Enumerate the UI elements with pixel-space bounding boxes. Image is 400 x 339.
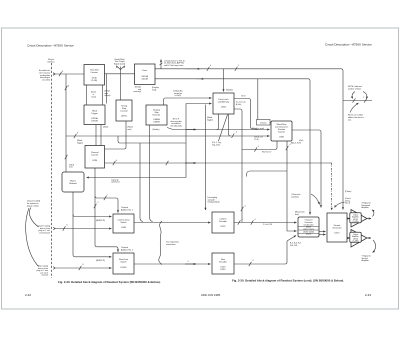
svg-text:(8080/T.P.): (8080/T.P.): [96, 220, 105, 222]
box: Matrix Network: [62, 172, 84, 192]
svg-text:Counter: Counter: [278, 131, 286, 134]
wire: timing strip lockout to channel counter: [105, 121, 127, 149]
svg-text:umn/channel: umn/channel: [39, 232, 50, 234]
svg-text:Counter: Counter: [91, 154, 99, 157]
wire: word logic bottom right branch: [287, 141, 297, 231]
svg-text:and D Port Loops clear: and D Port Loops clear: [164, 64, 184, 67]
box: Column Data Switch U146: [113, 214, 134, 233]
wire: decoupling drop to column decoder: [205, 105, 207, 211]
svg-text:plug-in unit(s): plug-in unit(s): [27, 204, 39, 207]
box: naster gate: [257, 120, 271, 126]
svg-text:(Phota): (Phota): [345, 190, 352, 193]
svg-text:2: 2: [107, 194, 108, 196]
wire: format generator top feed dash-dot: [331, 163, 333, 210]
svg-text:U370B: U370B: [91, 121, 98, 123]
svg-text:(Start): (Start): [103, 126, 109, 129]
wire: network bottom to switches: [73, 192, 112, 257]
wire: word logic bottom left branch: [242, 141, 277, 150]
wire: vertical drop from input feed to matrix network: [65, 74, 67, 172]
svg-text:4: 4: [210, 65, 211, 67]
svg-text:4: 4: [236, 132, 237, 134]
svg-text:the indicated): the indicated): [170, 124, 182, 127]
svg-text:mod): mod): [152, 89, 157, 91]
svg-text:Amplifier: Amplifier: [362, 259, 370, 262]
svg-text:U575: U575: [335, 233, 341, 235]
svg-text:trigger): trigger): [207, 118, 213, 121]
svg-text:1 bit: 1 bit: [69, 166, 73, 169]
svg-text:2-33: 2-33: [365, 293, 371, 297]
svg-text:Amplifier: Amplifier: [362, 206, 370, 209]
wire: column bus y222.5: [134, 222, 211, 224]
svg-text:(2-47B): (2-47B): [353, 221, 359, 223]
box: Timing Strip Lockout U470: [116, 100, 132, 121]
svg-text:Decoder: Decoder: [219, 261, 227, 264]
op-amp U4706 Y output amplifier: [351, 230, 367, 248]
wire: channel counter branch to column data switch: [95, 196, 118, 213]
wire: format generator to amplifier 2: [347, 237, 350, 239]
svg-text:Decoder: Decoder: [219, 220, 227, 223]
wire: channel bus y163: [105, 162, 333, 164]
svg-text:4: 4: [253, 260, 254, 262]
wire: data latch left input 2: [186, 103, 212, 105]
svg-text:(8080/T.P.): (8080/T.P.): [96, 260, 105, 262]
wire: strobe drop to data latches: [223, 69, 225, 92]
svg-text:4: 4: [290, 144, 291, 146]
svg-text:Address No. 2: Address No. 2: [121, 248, 133, 251]
box: Row Decoder U240: [212, 253, 234, 274]
label: left paragraph column data: [37, 226, 50, 235]
wire: channel counter bottom to row data switch: [95, 168, 118, 252]
box: Timer U410: [135, 64, 156, 85]
box: Row Data Switch U146: [113, 253, 134, 274]
svg-text:extinguish(ed): extinguish(ed): [208, 201, 220, 204]
svg-text:2: 2: [238, 65, 239, 67]
wire: word logic right output to char gen top: [292, 130, 321, 208]
box: Channel Counter U290: [85, 146, 105, 169]
wire: data latch bottom diagonal: [219, 115, 228, 142]
svg-text:reset): reset): [91, 96, 96, 99]
svg-text:U250: U250: [221, 107, 227, 109]
svg-text:8: 8: [83, 264, 84, 266]
svg-text:(Strobe): (Strobe): [226, 89, 233, 92]
svg-text:trigger): trigger): [77, 141, 83, 144]
box: Display Skip Detector U480: [146, 105, 167, 125]
box: Word Trigger U370: [84, 105, 105, 125]
box: Data Latch and Memory U250: [213, 93, 234, 114]
wire: up-arrow control pulses out: [160, 60, 162, 69]
op-amp U4705 X output amplifier: [351, 210, 367, 228]
svg-text:Circuit Description—8756X Serv: Circuit Description—8756X Service: [325, 43, 372, 47]
wire: row decoder to char generator: [234, 241, 287, 264]
wire: note legend lower arrow: [350, 103, 359, 113]
wire: loop drop x140: [140, 143, 143, 222]
wire: long control line y68.8 from timer to format generator column: [155, 69, 343, 210]
wire: display detector drop x150: [150, 125, 153, 222]
svg-text:position): position): [292, 195, 300, 198]
wire: naster box to word logic: [269, 121, 272, 123]
svg-text:Trigger: Trigger: [91, 112, 98, 115]
wire: callout curve to row data note: [26, 208, 39, 267]
svg-text:Signal (word): Signal (word): [114, 62, 126, 65]
wire: word trigger to channel counter verticals: [95, 125, 97, 146]
svg-text:2-32: 2-32: [25, 293, 31, 297]
svg-text:number of lines.: number of lines.: [348, 87, 362, 90]
svg-text:Switch: Switch: [120, 221, 126, 224]
wire: callout curve to column data note: [29, 208, 38, 228]
label: fit in F note: [170, 118, 182, 128]
svg-text:Counter: Counter: [91, 71, 99, 74]
wire: data latch right output C-1 to C-4: [234, 109, 242, 219]
svg-text:U225: U225: [221, 226, 227, 228]
box: Character Generator stack: [298, 217, 319, 237]
wire: word gate output drop: [106, 74, 108, 104]
wire: word bus y136 to word logic: [66, 135, 270, 137]
svg-text:output): output): [105, 94, 111, 97]
svg-text:Generator: Generator: [332, 227, 342, 230]
svg-text:U2016: U2016: [306, 234, 311, 236]
wire: y129.5 bus into word logic: [167, 128, 270, 130]
svg-text:2: 2: [363, 97, 364, 99]
svg-text:U190: U190: [279, 137, 285, 139]
note legend with line count symbols: [348, 85, 364, 121]
wire: row data switch to row decoder: [134, 263, 211, 265]
svg-text:(4 ln): (4 ln): [299, 140, 304, 142]
svg-text:one.: one.: [348, 119, 352, 121]
wire: long line y78.8 from timer down to character generator: [155, 79, 310, 215]
node: external input dashed boundary line: [51, 63, 53, 278]
wire: data latch right output W D: [234, 99, 258, 130]
svg-text:U410B: U410B: [142, 79, 149, 81]
label: left paragraph trigger pulses: [39, 70, 51, 82]
svg-text:that): that): [295, 213, 299, 216]
svg-text:Switch: Switch: [120, 261, 126, 264]
svg-text:8: 8: [68, 86, 69, 88]
svg-text:8: 8: [77, 133, 78, 135]
svg-text:R-6, R-8: R-6, R-8: [290, 245, 297, 247]
box: Word Rate Program Counter U190: [271, 121, 292, 141]
wire: note legend left arc: [352, 92, 355, 99]
wire: amplifier 2 output: [367, 237, 371, 239]
svg-text:ADD JUN 1985: ADD JUN 1985: [201, 293, 221, 297]
svg-text:U240: U240: [221, 269, 227, 271]
svg-text:U290: U290: [92, 160, 98, 162]
svg-text:2: 2: [98, 202, 99, 204]
svg-text:command: command: [111, 182, 119, 184]
svg-text:4: 4: [188, 261, 189, 263]
svg-text:2 Naster: 2 Naster: [260, 122, 267, 125]
wire: trigger input feed to time-slot counter: [54, 73, 84, 75]
svg-text:4: 4: [116, 160, 117, 162]
svg-text:(Ch 1, Trig,: (Ch 1, Trig,: [212, 141, 222, 144]
wire: curved arrow from line into char area: [311, 194, 320, 205]
wire: sequential instruction brace: [159, 221, 162, 265]
wire: readout feed y268: [54, 267, 112, 269]
svg-text:Trig, Dot): Trig, Dot): [212, 144, 220, 147]
svg-text:U495B: U495B: [153, 122, 160, 124]
wire: readout feed y228.5: [54, 228, 112, 230]
svg-text:4: 4: [255, 219, 256, 221]
svg-text:Fig. 2-30. Detailed block diag: Fig. 2-30. Detailed block diagram of Rea…: [232, 279, 344, 283]
svg-text:instructions: instructions: [166, 243, 176, 246]
box: Format Generator U575: [327, 213, 347, 242]
svg-text:Network: Network: [69, 182, 77, 185]
wire: char gen to format generator: [319, 231, 326, 233]
svg-text:Fig. 2-30. Detailed block diag: Fig. 2-30. Detailed block diagram of Rea…: [58, 280, 161, 284]
svg-text:4: 4: [242, 219, 243, 221]
svg-text:Detector: Detector: [153, 114, 161, 117]
label: line-count digits at slashes: [62, 65, 291, 266]
svg-text:(1 col/ch): (1 col/ch): [42, 80, 50, 82]
svg-text:Timer: Timer: [142, 69, 147, 72]
svg-text:Y2-3): Y2-3): [254, 139, 259, 141]
box: Time-Slot Counter U530: [84, 65, 105, 86]
box: Column Decoder U225: [212, 212, 234, 233]
svg-text:8: 8: [67, 225, 68, 227]
wire: amplifier 1 output: [367, 218, 371, 220]
svg-text:Lockout: Lockout: [120, 110, 128, 113]
wire: time-slot counter to word trigger verticals: [86, 85, 88, 105]
svg-text:memory): memory): [134, 90, 142, 93]
svg-text:2-1 to 2-16: 2-1 to 2-16: [263, 223, 272, 226]
label: only if acc note: [173, 90, 183, 98]
label: clock in reset: [91, 92, 96, 99]
svg-text:(2-47B): (2-47B): [353, 241, 359, 243]
svg-text:A, Hs): A, Hs): [236, 103, 242, 106]
svg-text:(2-1B): (2-1B): [91, 80, 97, 82]
svg-text:(Strobe): (Strobe): [153, 128, 160, 131]
svg-text:8: 8: [62, 71, 63, 73]
wire: note legend sample line: [343, 100, 372, 102]
wire: time-slot counter to timer: [105, 73, 135, 75]
label: strobe and memory: [134, 86, 142, 94]
wire: data latch left input 1: [164, 98, 212, 105]
svg-text:4: 4: [258, 146, 259, 148]
svg-text:844-Z, R-72: 844-Z, R-72: [291, 143, 301, 145]
wire: data latch bottom drop to y129.5 bus: [217, 114, 219, 130]
svg-text:Interface: Interface: [47, 60, 54, 63]
svg-text:(Word to gate): (Word to gate): [252, 127, 264, 130]
label: left paragraph row data: [37, 266, 49, 277]
label: flash trim output: [114, 58, 126, 66]
svg-text:Circuit Description—8756X Serv: Circuit Description—8756X Service: [27, 44, 74, 48]
svg-text:U470C: U470C: [121, 116, 128, 118]
svg-text:channel: channel: [41, 275, 48, 277]
svg-text:W, D: W, D: [242, 96, 247, 98]
wire: drop to naster box: [257, 79, 259, 120]
wire: column decoder to char generator: [234, 222, 297, 224]
svg-text:in Fit F): in Fit F): [175, 94, 182, 97]
svg-text:and Memory: and Memory: [218, 101, 230, 104]
svg-text:No. 2): No. 2): [345, 203, 351, 205]
wire: timing strip lockout feed: [120, 67, 122, 101]
wire: capacity command to network: [87, 177, 187, 179]
wire: data latch bottom drop to y136 bus: [229, 114, 231, 136]
wire: note legend right arc: [363, 92, 367, 99]
svg-text:W 274, K-7: W 274, K-7: [262, 151, 271, 153]
wire: curved arrow count listing: [335, 202, 345, 208]
svg-text:rate): rate): [128, 128, 132, 131]
svg-text:U1146: U1146: [121, 267, 128, 269]
wire: format generator to amplifier 1: [347, 218, 350, 220]
svg-text:4: 4: [245, 205, 246, 207]
svg-text:Address No. 1: Address No. 1: [121, 208, 133, 211]
svg-text:U146: U146: [121, 227, 127, 229]
